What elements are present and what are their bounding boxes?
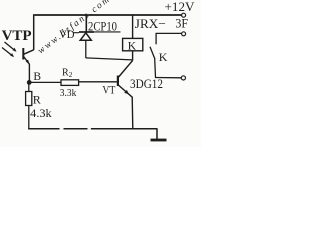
- wire: +12V top rail: [35, 14, 182, 16]
- light arrow 1: [5, 42, 17, 52]
- svg-text:K: K: [128, 40, 137, 52]
- watermark www.dzfans.com: [36, 0, 113, 56]
- collector diagonal: [24, 50, 34, 54]
- wire: emitter down to rail: [131, 97, 134, 130]
- wire: terminal 2 to switch: [156, 32, 182, 34]
- emitter diagonal with arrow: [24, 57, 30, 65]
- diode VD triangle: [80, 33, 91, 41]
- wire: diode to coil branch: [86, 58, 133, 60]
- svg-text:2CP10: 2CP10: [88, 18, 117, 33]
- svg-text:B: B: [33, 71, 41, 83]
- svg-text:JRX−: JRX−: [135, 16, 166, 31]
- svg-text:4.3k: 4.3k: [30, 106, 52, 120]
- wire: left drop to phototransistor collector: [33, 14, 35, 50]
- wire: R down to bottom rail: [28, 106, 30, 130]
- terminal 3: [181, 76, 185, 80]
- VD pointer dash: [74, 32, 80, 34]
- svg-text:VT: VT: [102, 85, 115, 97]
- wire: node B to R2: [29, 81, 61, 83]
- emitter vertical to node B: [28, 64, 30, 83]
- svg-text:R: R: [33, 93, 41, 107]
- terminal 2: [182, 32, 186, 36]
- wire: switch to terminal 3: [155, 77, 182, 79]
- phototransistor VTP: [23, 48, 33, 83]
- wire: switch bottom: [154, 59, 157, 78]
- diode VD anode stem: [85, 40, 87, 58]
- svg-text:3F: 3F: [175, 17, 188, 31]
- wire: bottom rail scan gaps: [60, 128, 64, 130]
- diode VD cathode bar: [79, 31, 94, 33]
- transistor VT emitter with arrow: [118, 85, 132, 97]
- svg-text:VTP: VTP: [2, 28, 32, 44]
- ground: [156, 129, 158, 140]
- wire: switch top stub: [155, 33, 157, 44]
- svg-text:VD: VD: [59, 27, 75, 41]
- wire: R2 to VT base: [79, 81, 118, 83]
- svg-text:K: K: [159, 50, 168, 64]
- wire: coil to collector slant: [119, 61, 133, 78]
- svg-text:3.3k: 3.3k: [60, 87, 77, 99]
- base bar: [22, 48, 24, 60]
- wire: node B down to R: [28, 82, 30, 91]
- diode VD stem from rail: [85, 15, 87, 32]
- relay coil K box: [123, 38, 143, 50]
- resistor R2: [61, 80, 79, 86]
- wire: bottom rail: [28, 128, 157, 130]
- svg-text:R2: R2: [62, 68, 73, 80]
- node B junction dot: [27, 80, 32, 85]
- light arrow 2: [2, 48, 14, 58]
- wire: coil bottom: [132, 51, 134, 61]
- svg-text:+12V: +12V: [165, 0, 195, 14]
- terminal 1 (+12V): [182, 13, 186, 17]
- transistor VT base bar: [117, 76, 119, 87]
- resistor R: [26, 92, 32, 106]
- relay coil feed wire: [132, 15, 134, 38]
- switch K blade: [150, 47, 155, 59]
